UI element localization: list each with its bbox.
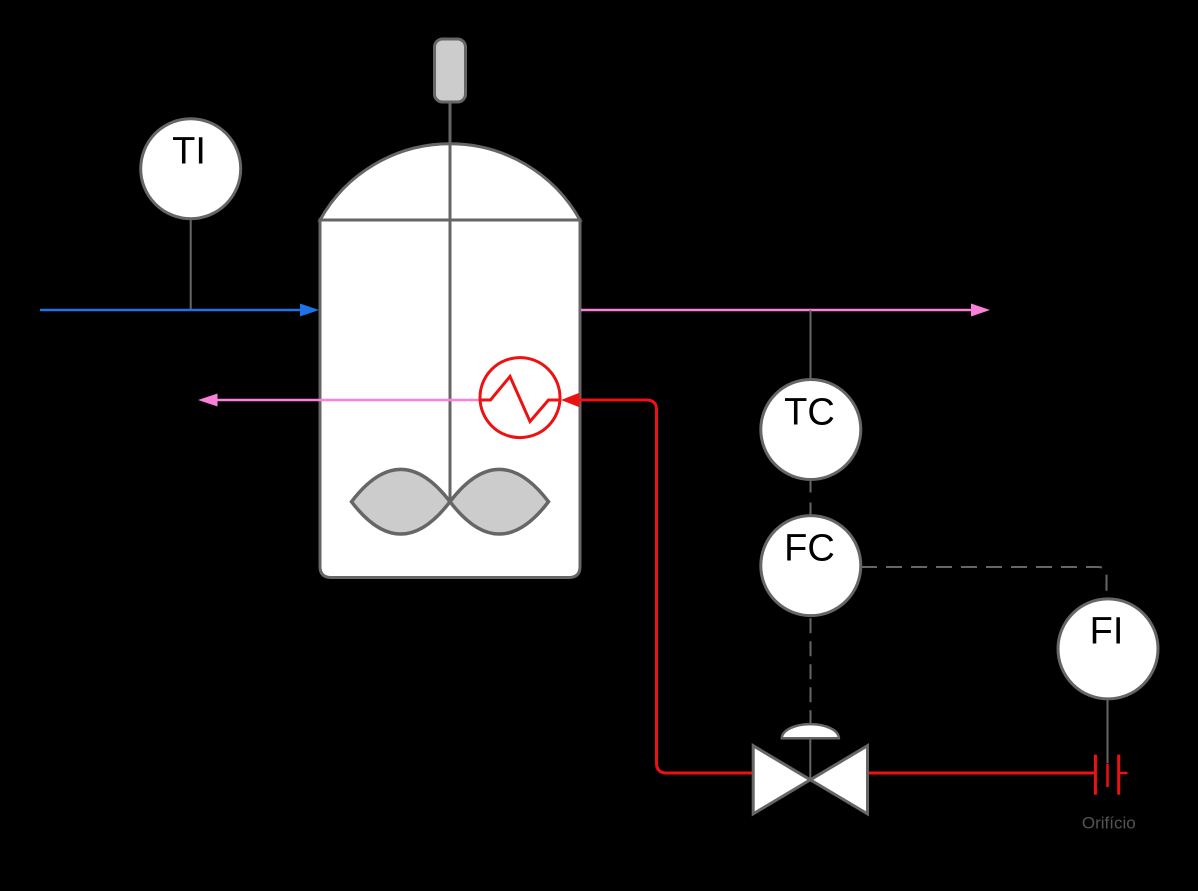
svg-text:FC: FC bbox=[784, 528, 835, 570]
svg-text:TI: TI bbox=[172, 131, 206, 173]
svg-text:Orifício: Orifício bbox=[1082, 813, 1136, 832]
svg-text:FI: FI bbox=[1090, 611, 1124, 653]
svg-text:TC: TC bbox=[784, 392, 835, 434]
